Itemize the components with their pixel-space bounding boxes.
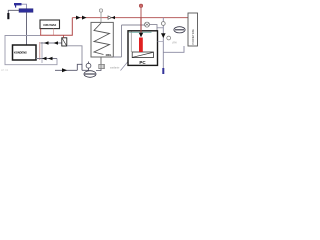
twin pipes right of condenser box bbox=[39, 42, 41, 60]
annotation pointer line to PC box bbox=[121, 62, 129, 71]
red drop into PC box bbox=[140, 18, 142, 33]
red drop from CRES box middle bbox=[53, 29, 55, 35]
pipe from valve to bottom run bbox=[67, 46, 82, 64]
flow arrow on top red line bbox=[76, 16, 81, 20]
condenser (KONDENS) box bbox=[13, 45, 37, 60]
link pump to drop pipe bbox=[82, 69, 101, 71]
arrow on return line bbox=[42, 57, 47, 61]
return line into condenser with arrows bbox=[36, 58, 57, 60]
circulation pump (ellipse) bottom bbox=[84, 71, 96, 78]
blue header bar (DHW outlet manifold) bbox=[19, 9, 33, 13]
svg-text:400L: 400L bbox=[106, 53, 112, 57]
PC (heat pump) box bbox=[128, 31, 158, 66]
arrow bbox=[54, 41, 59, 45]
svg-text:PC: PC bbox=[139, 60, 146, 65]
right vertical exhaust line bbox=[162, 18, 164, 68]
red supply pipe from CRES to riser bbox=[40, 18, 72, 36]
stub from air loop corner bbox=[157, 27, 163, 29]
down arrow / thick end of left drop bbox=[7, 13, 9, 19]
tank (cylinder with coil) bbox=[91, 22, 113, 57]
thermometer well bbox=[86, 62, 91, 71]
svg-text:t,RH: t,RH bbox=[172, 42, 177, 45]
CRES box (upper small labelled box) bbox=[40, 20, 60, 29]
arrow on return line bbox=[48, 57, 53, 61]
drop from tank bottom bbox=[100, 57, 102, 64]
evaporator plate (rect with diagonal) bbox=[132, 52, 153, 58]
bottom feed line with arrow bbox=[55, 69, 77, 71]
wire left from header bbox=[8, 10, 19, 13]
air duct box (POWIETRZE) bbox=[188, 13, 198, 46]
tick left of exhaust line bbox=[158, 41, 164, 43]
red drop from CRES box left bbox=[40, 29, 42, 35]
middle arrow line into left loop with arrows bbox=[41, 42, 62, 44]
svg-text:POWIETRZE: POWIETRZE bbox=[191, 29, 195, 45]
tap (faucet) symbol top-left bbox=[14, 3, 22, 8]
small sensor circle right of arrow bbox=[167, 36, 171, 40]
valve (bowtie) on top red line bbox=[108, 16, 112, 19]
wire down from header to condenser box bbox=[26, 12, 28, 45]
fan symbol on air loop bbox=[145, 22, 150, 27]
arrow on bottom feed bbox=[62, 68, 67, 72]
duct from POWIETRZE bottom to junction bbox=[163, 46, 184, 52]
left gray return loop (pipe) bbox=[5, 36, 57, 65]
air loop right side down to PC box bbox=[150, 25, 158, 31]
flow arrow on top red line bbox=[82, 16, 87, 20]
arrow bbox=[44, 41, 49, 45]
red heater bar inside PC bbox=[139, 38, 143, 53]
red top supply line bbox=[72, 17, 188, 19]
coil zigzag bbox=[94, 23, 110, 55]
inner gray drop line bbox=[130, 32, 132, 53]
wire from tap to blue header bbox=[22, 4, 27, 9]
teal strip inside top bbox=[129, 31, 151, 33]
svg-text:CWU MAX: CWU MAX bbox=[43, 23, 56, 27]
tank-to-PC connection loop bbox=[113, 25, 144, 57]
sensor circle on exhaust line bbox=[161, 22, 165, 26]
thick blue end of exhaust line bbox=[162, 68, 164, 74]
electric plug (hatched) bbox=[99, 64, 105, 68]
check valve rectangle bbox=[62, 38, 67, 46]
red stub above check valve bbox=[63, 35, 65, 38]
svg-text:KONDENS: KONDENS bbox=[14, 51, 27, 55]
pump (ellipse) right bbox=[174, 27, 185, 33]
down arrow on exhaust line bbox=[161, 33, 166, 38]
svg-text:zasilanie: zasilanie bbox=[110, 67, 120, 70]
air vent on tank top bbox=[99, 9, 102, 18]
svg-text:LP. 01: LP. 01 bbox=[1, 68, 9, 72]
pipe trap (bridge) bbox=[77, 64, 82, 70]
gray drop from red line into tank bbox=[100, 18, 102, 23]
safety valve riser above PC bbox=[139, 4, 142, 18]
arrow into PC bbox=[139, 33, 143, 37]
